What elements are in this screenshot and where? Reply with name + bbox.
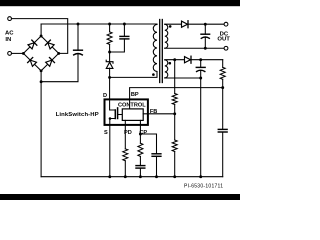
BP rail wire: [130, 88, 223, 100]
U1 gate to control wire: [118, 114, 123, 116]
node CP: [139, 133, 142, 136]
node bridge right: [57, 52, 60, 55]
wire bias diode to bias node: [191, 59, 223, 61]
node output cap bottom: [204, 47, 207, 50]
wire bridge top vertex to HV rail: [40, 24, 42, 36]
bias capacitor C4: [196, 60, 205, 78]
wire drain node to D pin: [109, 77, 111, 99]
node FB tap: [173, 58, 176, 61]
node bulk cap top: [77, 23, 80, 26]
svg-text:PD: PD: [124, 130, 132, 136]
node PD ground: [124, 175, 127, 178]
U1 MOSFET channel bar: [114, 110, 116, 119]
node BP bias junction: [221, 86, 224, 89]
wire upper resistor to FB node: [174, 105, 176, 114]
PD resistor R5: [123, 125, 128, 177]
wire AC bottom to bridge left vertex: [11, 52, 23, 54]
svg-text:FB: FB: [150, 109, 157, 115]
svg-text:IN: IN: [5, 37, 11, 43]
node bridge top: [40, 35, 43, 38]
transformer T1 primary winding: [153, 25, 157, 72]
bottom frame bar: [0, 194, 240, 200]
svg-text:CP: CP: [139, 130, 147, 136]
primary phase dot: [152, 73, 155, 76]
svg-text:LinkSwitch-HP: LinkSwitch-HP: [56, 112, 99, 118]
wire secondary bottom return: [165, 47, 225, 49]
node CP cap ground: [155, 175, 158, 178]
node bias cap bottom: [199, 77, 202, 80]
bridge diode D3 (bottom vertex to left vertex): [28, 57, 37, 66]
svg-text:PI-6530-101711: PI-6530-101711: [184, 183, 223, 189]
top frame bar: [0, 0, 240, 6]
wire FB node down: [174, 114, 176, 140]
DC OUT top terminal: [224, 22, 228, 26]
U1 source node: [109, 117, 112, 120]
svg-text:CONTROL: CONTROL: [118, 102, 146, 108]
wire bias winding bottom: [165, 77, 201, 79]
node FB divider ground: [173, 175, 176, 178]
bias feed resistor R2: [220, 60, 225, 88]
AC IN bottom terminal: [8, 52, 12, 56]
U1 FB wire: [143, 113, 175, 115]
bridge rectifier diamond wires: [23, 36, 58, 71]
bias diode D6: [185, 56, 192, 63]
node bridge left: [22, 52, 25, 55]
transformer secondary winding: [165, 24, 168, 48]
wire bridge bottom vertex down to ground rail: [40, 71, 42, 177]
node drain: [108, 76, 111, 79]
wire secondary top to output diode: [165, 23, 182, 25]
wire drain node to primary bottom: [110, 72, 157, 78]
wire bias winding top: [165, 59, 185, 61]
svg-text:S: S: [104, 130, 108, 136]
junction node dots: [22, 23, 224, 179]
CP series resistor R6: [138, 134, 143, 166]
wire AC top to bridge right vertex: [11, 19, 67, 54]
bulk capacitor C1: [41, 24, 82, 82]
svg-text:D: D: [103, 93, 107, 99]
node clamp C top: [123, 23, 126, 26]
HV rail wire to transformer primary: [41, 23, 157, 25]
node bulk cap bottom: [40, 80, 43, 83]
FB divider tap wire from bias winding: [174, 60, 176, 94]
node bias return ground: [199, 175, 202, 178]
clamp zener diode VR1: [106, 52, 113, 77]
clamp resistor R1: [107, 24, 112, 52]
U1 internal BP wire: [129, 99, 131, 109]
bias phase dot: [169, 62, 172, 65]
ground rail wire: [41, 176, 223, 178]
wire output diode to DC OUT+: [188, 23, 224, 25]
FB lower resistor R4: [172, 140, 177, 152]
U1 CP internal wire: [139, 120, 141, 125]
U1 CONTROL block: [122, 109, 143, 121]
CP parallel capacitor C7: [152, 154, 161, 177]
S pin wire to ground rail: [109, 125, 111, 177]
bridge diode D4 (bottom vertex to right vertex): [45, 57, 54, 66]
transformer core: [159, 20, 161, 83]
FB upper resistor R3: [172, 94, 177, 105]
wire lower resistor to ground rail: [174, 152, 176, 177]
CP pin wire: [139, 125, 141, 134]
CP branch wire: [140, 134, 156, 154]
BP capacitor C5: [218, 88, 227, 177]
bridge diode D2 (right vertex to top vertex): [45, 40, 54, 49]
wire bias return to ground rail: [200, 78, 202, 177]
node output cap top: [204, 23, 207, 26]
U1 internal drain wire: [110, 99, 116, 110]
svg-text:OUT: OUT: [217, 37, 230, 43]
clamp capacitor C2: [110, 24, 129, 52]
AC IN top terminal: [8, 17, 12, 21]
DC OUT bottom terminal: [224, 46, 228, 50]
node FB: [173, 112, 176, 115]
bridge diode D1 (left vertex to top vertex): [28, 40, 37, 49]
node clamp R top: [108, 23, 111, 26]
node CP RC ground: [139, 175, 142, 178]
U1 MOSFET gate bar: [117, 108, 119, 119]
U1 source wire: [110, 119, 116, 125]
output diode D5: [182, 21, 189, 28]
node bias rectified: [199, 58, 202, 61]
transformer bias winding: [165, 60, 168, 78]
node clamp RC join: [108, 51, 111, 54]
secondary phase dot: [169, 25, 172, 28]
node bridge bottom: [40, 69, 43, 72]
svg-text:AC: AC: [5, 31, 14, 37]
U1 PD internal wire: [124, 120, 126, 125]
node S ground: [108, 175, 111, 178]
CP series capacitor C6: [136, 166, 145, 177]
svg-text:BP: BP: [131, 92, 139, 98]
LinkSwitch-HP U1 package: [105, 99, 148, 125]
output capacitor C3: [201, 24, 210, 48]
